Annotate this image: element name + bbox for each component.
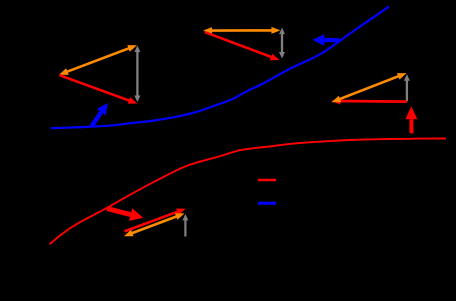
blue curve (proper velocity, convex rising) — [51, 7, 390, 129]
bottom triangle gray delta-v arrow — [184, 218, 186, 236]
triangle 2 orange vector (double-headed) — [209, 29, 275, 32]
triangle 1 orange vector (double-headed) — [65, 47, 132, 72]
red annotation arrow right (pointing up) — [409, 119, 413, 133]
legend blue sample line — [258, 202, 276, 205]
bottom triangle orange vector (double-headed) — [129, 216, 179, 235]
triangle 3 gray delta-v arrow — [406, 79, 408, 102]
blue annotation arrow upper-right — [324, 38, 339, 42]
triangle 3 orange vector (double-headed) — [337, 75, 401, 100]
triangle 3 red velocity vector — [337, 100, 407, 103]
triangle 2 gray delta-v double arrow — [281, 32, 283, 55]
red annotation arrow lower-left — [107, 209, 131, 215]
red curve (coordinate velocity, saturating) — [50, 139, 447, 245]
triangle 1 gray delta-v double arrow — [136, 50, 138, 98]
triangle 1 red velocity vector — [60, 75, 132, 101]
triangle 2 red velocity vector — [205, 32, 274, 58]
legend red sample line — [258, 179, 276, 182]
bottom triangle red velocity vector — [124, 211, 180, 232]
blue annotation arrow lower-left — [92, 112, 102, 126]
